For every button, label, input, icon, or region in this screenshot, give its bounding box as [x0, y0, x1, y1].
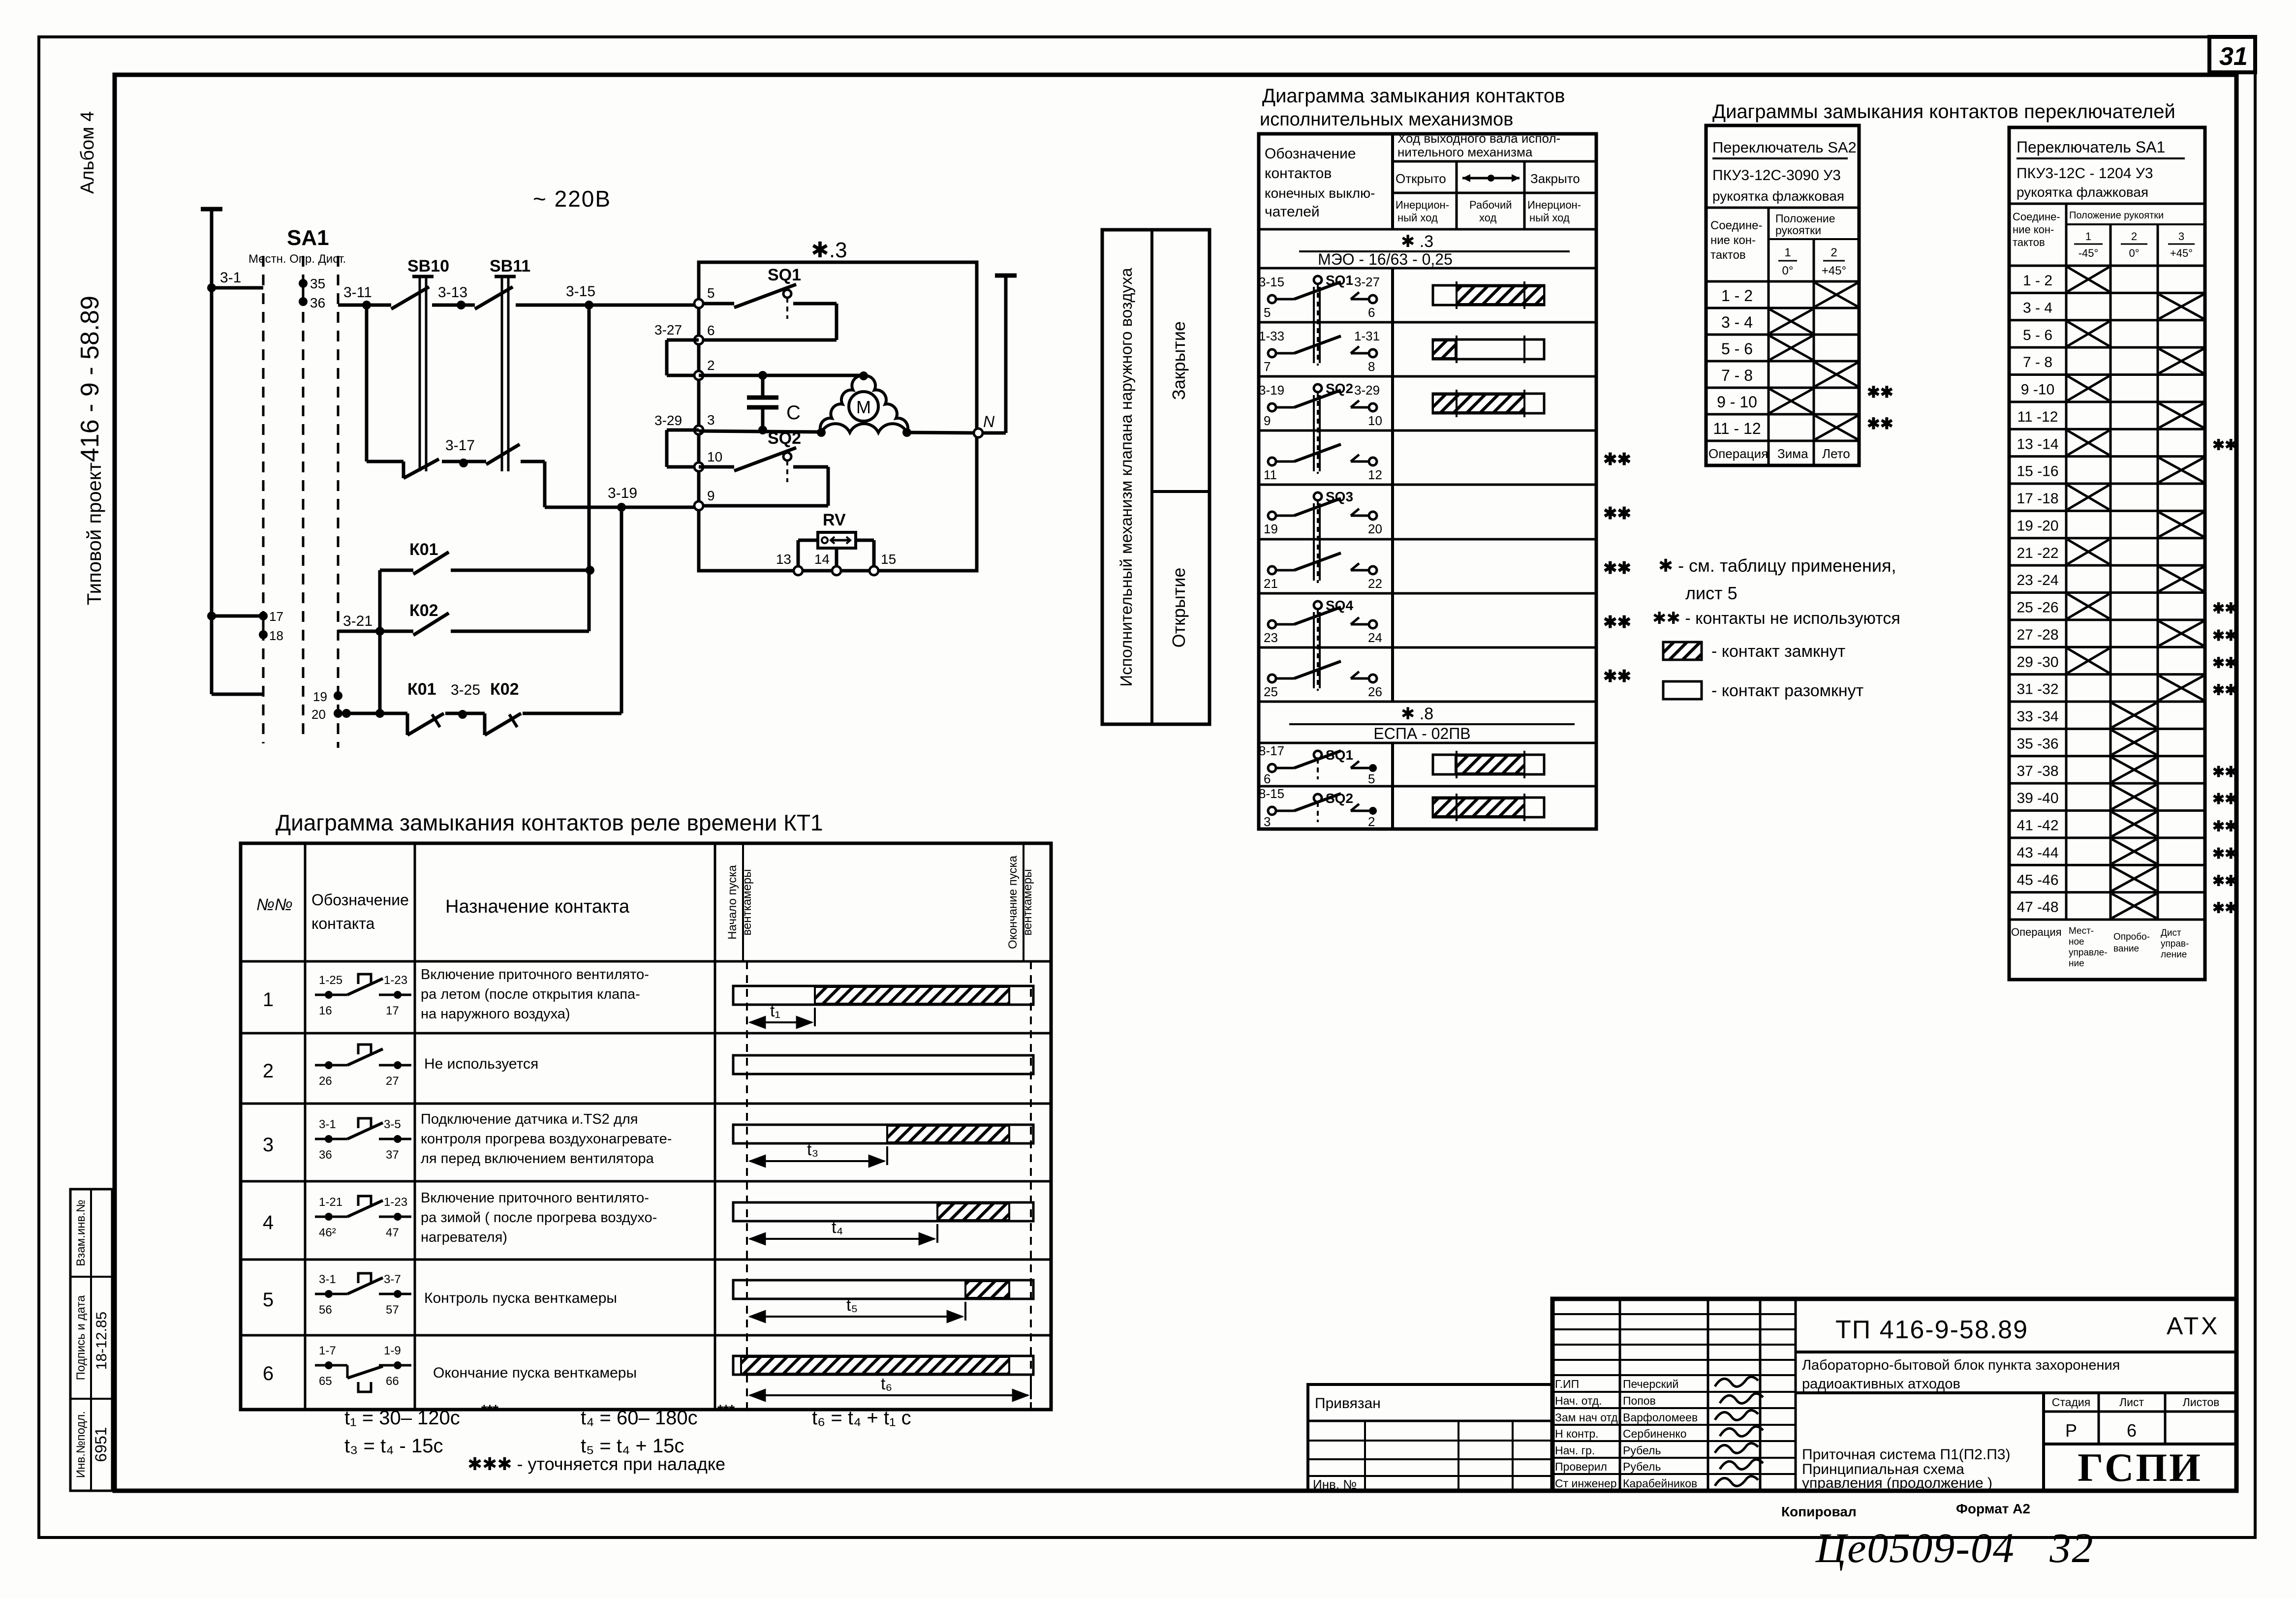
- svg-text:К01: К01: [409, 540, 438, 559]
- svg-text:25: 25: [1264, 684, 1278, 699]
- node 3-11: [343, 284, 372, 309]
- break contact K02 bottom: [485, 680, 521, 735]
- svg-text:ПКУ3-12С - 1204 У3: ПКУ3-12С - 1204 У3: [2017, 165, 2153, 182]
- KT1 table frame: [241, 843, 1051, 1410]
- svg-text:Операция: Операция: [2011, 926, 2062, 938]
- right neutral bus N: [981, 276, 1017, 433]
- svg-text:39 -40: 39 -40: [2017, 790, 2058, 806]
- pin 10: [694, 449, 722, 471]
- contact row SQ3 19-20 unused: [1264, 489, 1631, 583]
- svg-text:✱✱: ✱✱: [1603, 667, 1631, 686]
- svg-text:Открыто: Открыто: [1396, 171, 1446, 186]
- svg-text:5 - 6: 5 - 6: [2023, 327, 2052, 343]
- svg-text:SQ1: SQ1: [768, 266, 801, 284]
- svg-text:✱✱: ✱✱: [2212, 900, 2237, 917]
- svg-text:6: 6: [1264, 771, 1271, 786]
- pin 3: [694, 412, 715, 434]
- svg-text:Инерцион-: Инерцион-: [1527, 199, 1581, 211]
- svg-text:М: М: [856, 397, 871, 417]
- svg-text:3-15: 3-15: [566, 283, 595, 300]
- motor M delta winding: [817, 371, 911, 437]
- svg-text:✱✱: ✱✱: [1867, 383, 1893, 401]
- svg-text:t₃ = t₄ - 15с: t₃ = t₄ - 15с: [344, 1435, 443, 1457]
- svg-text:✱ - см. таблицу применения,: ✱ - см. таблицу применения,: [1658, 555, 1896, 576]
- svg-text:Н контр.: Н контр.: [1555, 1427, 1599, 1440]
- svg-text:416 - 9 - 58.89: 416 - 9 - 58.89: [76, 296, 104, 462]
- svg-text:3: 3: [707, 412, 715, 428]
- svg-text:1-9: 1-9: [384, 1344, 401, 1357]
- svg-text:Закрыто: Закрыто: [1530, 171, 1580, 186]
- svg-text:+45°: +45°: [2170, 247, 2193, 259]
- svg-text:Положение рукоятки: Положение рукоятки: [2069, 210, 2164, 221]
- node 3-21: [343, 613, 384, 636]
- svg-text:✱✱: ✱✱: [2212, 601, 2237, 617]
- svg-text:16: 16: [319, 1004, 332, 1017]
- svg-text:3 - 4: 3 - 4: [1721, 313, 1753, 331]
- wire main row to actuator box: [338, 304, 696, 307]
- pin 5: [694, 285, 715, 308]
- svg-text:Зима: Зима: [1777, 446, 1808, 461]
- title Диаграмма замыкания контактов реле времени КТ1: [276, 810, 823, 835]
- svg-text:36: 36: [319, 1148, 332, 1162]
- svg-text:рукоятка флажковая: рукоятка флажковая: [2017, 184, 2148, 200]
- svg-text:✱✱: ✱✱: [1603, 613, 1631, 632]
- svg-text:21: 21: [1264, 576, 1278, 591]
- svg-text:Рабочий: Рабочий: [1469, 199, 1512, 211]
- actuator mechanism label table: [1102, 230, 1210, 724]
- svg-text:✱✱: ✱✱: [2212, 819, 2237, 835]
- svg-text:Подключение датчика и.TS2 для: Подключение датчика и.TS2 для: [421, 1111, 638, 1127]
- svg-text:2: 2: [263, 1060, 274, 1082]
- legend open contact swatch: [1663, 681, 1863, 700]
- actuator box *.3: [699, 238, 977, 571]
- svg-text:17 -18: 17 -18: [2017, 491, 2058, 507]
- svg-text:✱✱: ✱✱: [1603, 450, 1631, 469]
- svg-text:33 -34: 33 -34: [2017, 708, 2058, 725]
- label Копировал: [1781, 1504, 1857, 1519]
- svg-text:Инерцион-: Инерцион-: [1396, 199, 1449, 211]
- svg-text:5: 5: [1368, 771, 1375, 786]
- svg-text:контакта: контакта: [311, 915, 375, 932]
- svg-text:23: 23: [1264, 630, 1278, 645]
- limit switch SQ1: [699, 266, 837, 340]
- KT1 row 5: [263, 1273, 1033, 1321]
- svg-text:Включение приточного вентиля: Включение приточного вентилято-: [421, 1190, 649, 1206]
- svg-text:исполнительных механизмов: исполнительных механизмов: [1260, 109, 1513, 130]
- svg-text:Лист: Лист: [2119, 1396, 2144, 1409]
- contact row SQ2 3-19/9 3-29/10 with bar: [1259, 381, 1544, 474]
- svg-text:t₅: t₅: [846, 1296, 858, 1315]
- svg-text:Лабораторно-бытовой блок пу: Лабораторно-бытовой блок пункта захороне…: [1802, 1357, 2120, 1373]
- contact row SQ1 3-15/5 3-27/6 with bar: [1259, 273, 1544, 366]
- svg-text:3-1: 3-1: [319, 1273, 336, 1286]
- svg-text:37 -38: 37 -38: [2017, 763, 2058, 779]
- svg-text:26: 26: [319, 1075, 332, 1088]
- svg-text:5: 5: [1264, 305, 1271, 320]
- wire left relay column: [378, 570, 382, 713]
- svg-text:+45°: +45°: [1822, 264, 1846, 277]
- svg-text:Опробо-: Опробо-: [2113, 932, 2150, 942]
- svg-text:3: 3: [263, 1134, 274, 1156]
- svg-text:13: 13: [776, 552, 791, 567]
- svg-text:8-15: 8-15: [1259, 786, 1284, 801]
- pin 13: [776, 552, 803, 575]
- svg-text:47 -48: 47 -48: [2017, 899, 2058, 916]
- node 3-19: [608, 485, 637, 512]
- svg-text:Лето: Лето: [1822, 446, 1850, 461]
- contact row 11-12 unused: [1264, 444, 1631, 482]
- svg-text:11 -12: 11 -12: [2017, 409, 2058, 425]
- svg-text:Взам.инв.№: Взам.инв.№: [74, 1199, 88, 1266]
- svg-text:ние кон-: ние кон-: [2013, 223, 2054, 236]
- svg-text:12: 12: [1368, 467, 1382, 482]
- svg-text:t₄: t₄: [832, 1218, 843, 1237]
- svg-text:✱✱: ✱✱: [2212, 655, 2237, 671]
- KT1 time formulas: [344, 1402, 911, 1457]
- node 3-15: [566, 283, 595, 309]
- contact row 1-33/7 1-31/8 with bar: [1259, 329, 1544, 374]
- svg-text:✱✱: ✱✱: [1603, 559, 1631, 578]
- svg-text:11 - 12: 11 - 12: [1713, 420, 1761, 437]
- svg-text:9: 9: [707, 488, 715, 503]
- svg-text:Инв. №: Инв. №: [1313, 1477, 1357, 1492]
- svg-text:Копировал: Копировал: [1781, 1504, 1857, 1519]
- svg-text:3-1: 3-1: [220, 270, 241, 286]
- title block sheet name: [1802, 1446, 2010, 1491]
- pushbutton SB10: [391, 257, 449, 478]
- svg-text:№№: №№: [256, 895, 293, 914]
- legend asterisk notes: [1652, 555, 1900, 628]
- svg-text:Диаграмма замыкания контакто: Диаграмма замыкания контактов реле време…: [276, 810, 823, 835]
- svg-text:35 -36: 35 -36: [2017, 736, 2058, 752]
- contact 19-20 on SA1: [311, 689, 342, 722]
- svg-text:✱✱: ✱✱: [2212, 846, 2237, 862]
- pin 9: [694, 488, 715, 510]
- title Диаграмма замыкания контактов исполнительных механизмов: [1260, 85, 1565, 130]
- pin 14: [814, 552, 841, 575]
- svg-text:37: 37: [386, 1148, 399, 1162]
- title block frame: [1552, 1299, 2236, 1491]
- svg-text:Не используется: Не используется: [424, 1056, 538, 1072]
- svg-text:ние кон-: ние кон-: [1710, 234, 1756, 247]
- svg-text:6: 6: [2127, 1420, 2137, 1441]
- svg-text:Нач. отд.: Нач. отд.: [1555, 1394, 1602, 1407]
- svg-text:управле-: управле-: [2069, 948, 2108, 958]
- svg-text:15: 15: [881, 552, 896, 567]
- svg-text:✱✱: ✱✱: [2212, 764, 2237, 780]
- svg-text:Р: Р: [2065, 1420, 2077, 1441]
- svg-text:Типовой проект: Типовой проект: [84, 462, 105, 605]
- svg-text:конечных выклю-: конечных выклю-: [1265, 185, 1375, 201]
- pin 6: [694, 323, 715, 344]
- svg-text:контактов: контактов: [1265, 165, 1332, 182]
- title block roles and names: [1555, 1378, 1698, 1490]
- svg-text:тактов: тактов: [1710, 248, 1746, 262]
- svg-text:t₆ = t₄ + t₁ с: t₆ = t₄ + t₁ с: [812, 1407, 911, 1429]
- svg-text:3-5: 3-5: [384, 1118, 401, 1131]
- svg-text:N: N: [983, 413, 995, 430]
- wire 3-27 loop: [654, 322, 699, 375]
- margin text Типовой проект 416-9-58.89: [76, 296, 105, 605]
- svg-text:- контакт разомкнут: - контакт разомкнут: [1711, 681, 1863, 700]
- svg-text:рукоятка флажковая: рукоятка флажковая: [1712, 188, 1844, 204]
- svg-text:14: 14: [814, 552, 830, 567]
- svg-text:Дист: Дист: [2161, 928, 2181, 938]
- svg-text:Контроль пуска венткамеры: Контроль пуска венткамеры: [424, 1290, 617, 1306]
- svg-text:45 -46: 45 -46: [2017, 872, 2058, 888]
- contact 17-18 on SA1: [207, 609, 283, 643]
- svg-text:17: 17: [386, 1004, 399, 1017]
- svg-text:17: 17: [269, 609, 283, 624]
- svg-text:1: 1: [1784, 246, 1791, 259]
- svg-text:Варфоломеев: Варфоломеев: [1623, 1411, 1698, 1424]
- svg-text:SB11: SB11: [490, 257, 530, 276]
- svg-text:t₆: t₆: [881, 1375, 892, 1393]
- svg-text:***: ***: [481, 1402, 498, 1418]
- svg-text:3-15: 3-15: [1259, 275, 1284, 289]
- svg-text:9 - 10: 9 - 10: [1717, 393, 1757, 411]
- svg-text:ГСПИ: ГСПИ: [2078, 1445, 2203, 1490]
- svg-text:Сербиненко: Сербиненко: [1623, 1427, 1687, 1440]
- svg-text:Приточная система П1(П2.П3): Приточная система П1(П2.П3): [1802, 1446, 2010, 1463]
- svg-text:15 -16: 15 -16: [2017, 463, 2058, 480]
- legend closed contact swatch: [1663, 642, 1845, 661]
- svg-text:К02: К02: [490, 680, 519, 699]
- svg-text:8-17: 8-17: [1259, 743, 1284, 758]
- SA2 unused marks: [1867, 383, 1893, 432]
- svg-text:1-23: 1-23: [384, 1196, 407, 1209]
- actuator contact table frame: [1259, 134, 1596, 829]
- wire from 3-19 to bottom row: [620, 507, 623, 713]
- svg-text:лист 5: лист 5: [1685, 583, 1738, 603]
- svg-text:✱✱: ✱✱: [2212, 791, 2237, 807]
- svg-text:25 -26: 25 -26: [2017, 600, 2058, 616]
- actuator table band ЕСПА-02ПВ: [1259, 702, 1596, 743]
- svg-text:2: 2: [1368, 814, 1375, 829]
- contact 35-36 on SA1: [299, 276, 325, 310]
- svg-text:66: 66: [386, 1375, 399, 1388]
- svg-text:Обозначение: Обозначение: [1265, 146, 1356, 162]
- wire bottom row: [338, 709, 621, 718]
- svg-text:ра зимой ( после прогрева во: ра зимой ( после прогрева воздухо-: [421, 1210, 657, 1226]
- svg-text:3-19: 3-19: [608, 485, 637, 501]
- svg-text:✱ .8: ✱ .8: [1401, 705, 1433, 723]
- svg-text:9 -10: 9 -10: [2021, 382, 2054, 398]
- svg-text:5: 5: [707, 285, 715, 301]
- svg-text:1-31: 1-31: [1354, 329, 1380, 343]
- svg-text:65: 65: [319, 1375, 332, 1388]
- svg-text:нагревателя): нагревателя): [421, 1229, 507, 1245]
- svg-text:3: 3: [2178, 230, 2184, 243]
- svg-text:✱ .3: ✱ .3: [1401, 232, 1433, 251]
- svg-text:Диаграммы замыкания контакт: Диаграммы замыкания контактов переключат…: [1712, 101, 2175, 123]
- title Диаграммы замыкания контактов переключателей: [1712, 101, 2175, 123]
- margin handwritten date 18-12-85: [93, 1312, 110, 1370]
- svg-text:✱✱ - контакты не используютс: ✱✱ - контакты не используются: [1652, 609, 1900, 628]
- svg-text:ление: ление: [2161, 950, 2187, 960]
- svg-text:10: 10: [707, 449, 722, 464]
- svg-text:t₁: t₁: [770, 1002, 780, 1020]
- actuator table row lines: [1259, 322, 1596, 647]
- svg-text:тактов: тактов: [2013, 236, 2045, 248]
- svg-text:вание: вание: [2113, 944, 2139, 954]
- svg-text:***: ***: [717, 1402, 735, 1418]
- svg-text:27: 27: [386, 1075, 399, 1088]
- svg-text:1-23: 1-23: [384, 974, 407, 987]
- svg-text:К01: К01: [407, 680, 436, 699]
- node N: [974, 413, 995, 437]
- handwritten archive number Це0509-04 32: [1815, 1524, 2094, 1571]
- svg-text:23 -24: 23 -24: [2017, 572, 2058, 588]
- svg-text:22: 22: [1368, 576, 1382, 591]
- svg-text:5: 5: [263, 1289, 274, 1311]
- svg-text:Начало пуска: Начало пуска: [726, 865, 739, 940]
- svg-text:Окончание пуска: Окончание пуска: [1006, 856, 1020, 949]
- wire lower branch via 3-17: [367, 305, 696, 507]
- KT1 row 2: [263, 1045, 1033, 1088]
- svg-text:рукоятки: рукоятки: [1775, 224, 1821, 237]
- actuator table row line: [1259, 785, 1596, 788]
- svg-text:1-7: 1-7: [319, 1344, 336, 1357]
- svg-text:ТП 416-9-58.89: ТП 416-9-58.89: [1835, 1316, 2028, 1344]
- margin handwritten number 6951: [92, 1427, 110, 1462]
- pushbutton SB11: [475, 257, 530, 471]
- svg-text:Нач. гр.: Нач. гр.: [1555, 1444, 1595, 1457]
- svg-text:36: 36: [310, 295, 325, 310]
- svg-text:3-19: 3-19: [1259, 383, 1284, 398]
- svg-text:6: 6: [1368, 305, 1375, 320]
- svg-text:7 - 8: 7 - 8: [1721, 367, 1753, 384]
- svg-text:7 - 8: 7 - 8: [2023, 354, 2052, 370]
- pin 15: [869, 552, 896, 575]
- svg-text:Назначение контакта: Назначение контакта: [445, 896, 630, 917]
- svg-text:Це0509-04 32: Це0509-04 32: [1815, 1524, 2094, 1571]
- svg-text:✱✱: ✱✱: [2212, 873, 2237, 889]
- svg-text:Переключатель SA2: Переключатель SA2: [1712, 139, 1857, 156]
- svg-text:Г.ИП: Г.ИП: [1555, 1378, 1579, 1390]
- wire node2 row: [699, 374, 864, 377]
- svg-text:46²: 46²: [319, 1226, 336, 1239]
- resistor RV: [798, 511, 874, 568]
- svg-text:1 - 2: 1 - 2: [2023, 273, 2052, 289]
- svg-text:Печерский: Печерский: [1623, 1378, 1678, 1390]
- svg-text:~ 220В: ~ 220В: [533, 186, 611, 212]
- switch SA1 label: [248, 226, 346, 266]
- svg-text:3-27: 3-27: [654, 322, 682, 338]
- svg-text:41 -42: 41 -42: [2017, 818, 2058, 834]
- svg-text:1 - 2: 1 - 2: [1721, 287, 1753, 305]
- svg-text:47: 47: [386, 1226, 399, 1239]
- svg-text:19 -20: 19 -20: [2017, 518, 2058, 534]
- svg-text:1-21: 1-21: [319, 1196, 342, 1209]
- svg-text:5 - 6: 5 - 6: [1721, 340, 1753, 358]
- svg-text:Рубель: Рубель: [1623, 1444, 1661, 1457]
- svg-text:31: 31: [2219, 42, 2248, 71]
- svg-text:1: 1: [263, 989, 274, 1011]
- svg-text:3-27: 3-27: [1354, 275, 1380, 289]
- svg-text:13 -14: 13 -14: [2017, 436, 2058, 452]
- svg-text:3: 3: [1264, 814, 1271, 829]
- sheet number box 31: [2209, 37, 2255, 72]
- svg-text:18: 18: [269, 628, 283, 643]
- svg-text:27 -28: 27 -28: [2017, 627, 2058, 643]
- node 3-13: [438, 284, 467, 309]
- svg-text:Рубель: Рубель: [1623, 1460, 1661, 1473]
- svg-text:Операция: Операция: [1708, 446, 1768, 461]
- svg-text:6951: 6951: [92, 1427, 110, 1462]
- svg-text:1-33: 1-33: [1259, 329, 1284, 343]
- svg-text:Зам нач отд: Зам нач отд: [1555, 1411, 1618, 1424]
- svg-text:управ-: управ-: [2161, 939, 2189, 949]
- svg-text:35: 35: [310, 276, 325, 291]
- svg-text:2: 2: [2131, 230, 2137, 243]
- power label ~220В: [533, 186, 611, 212]
- svg-text:✱✱: ✱✱: [1867, 415, 1893, 432]
- svg-text:Привязан: Привязан: [1315, 1395, 1381, 1412]
- contact row 21-22 unused: [1264, 553, 1631, 591]
- svg-text:29 -30: 29 -30: [2017, 654, 2058, 670]
- node 3-1: [207, 270, 263, 292]
- svg-text:С: С: [786, 402, 801, 424]
- svg-text:Альбом 4: Альбом 4: [77, 111, 98, 194]
- svg-text:ПКУ3-12С-3090 У3: ПКУ3-12С-3090 У3: [1712, 167, 1841, 184]
- svg-text:56: 56: [319, 1303, 332, 1317]
- capacitor C: [747, 371, 801, 434]
- svg-text:31 -32: 31 -32: [2017, 681, 2058, 698]
- svg-text:t₃: t₃: [807, 1140, 818, 1159]
- svg-text:✱✱: ✱✱: [2212, 628, 2237, 644]
- svg-text:Включение приточного вентилято: Включение приточного вентилято-: [421, 967, 649, 983]
- svg-text:Карабейников: Карабейников: [1623, 1477, 1697, 1490]
- svg-text:Переключатель SA1: Переключатель SA1: [2017, 138, 2165, 156]
- actuator table header: [1259, 131, 1596, 229]
- svg-text:Открытие: Открытие: [1169, 568, 1189, 648]
- switch SA2 contact table: [1706, 125, 1859, 465]
- svg-text:-45°: -45°: [2079, 247, 2099, 259]
- KT1 dashed reference lines: [747, 961, 1031, 1410]
- svg-text:ЕСПА - 02ПВ: ЕСПА - 02ПВ: [1373, 725, 1470, 742]
- svg-text:7: 7: [1264, 359, 1271, 374]
- svg-text:✱✱: ✱✱: [2212, 437, 2237, 453]
- svg-text:Ход выходного вала испол-: Ход выходного вала испол-: [1397, 131, 1560, 146]
- relay contact K02: [338, 601, 589, 635]
- wire 3-29 loop: [654, 413, 699, 467]
- svg-text:18-12.85: 18-12.85: [93, 1312, 110, 1370]
- svg-text:0°: 0°: [1782, 264, 1794, 277]
- svg-text:24: 24: [1368, 630, 1382, 645]
- contact row 25-26 unused: [1264, 661, 1631, 699]
- svg-text:3-17: 3-17: [445, 437, 475, 454]
- svg-text:21 -22: 21 -22: [2017, 545, 2058, 561]
- svg-text:АТХ: АТХ: [2167, 1312, 2220, 1340]
- title block object description: [1796, 1357, 2236, 1393]
- title block stage cells: [2044, 1393, 2236, 1491]
- limit switch SQ2: [699, 429, 828, 506]
- svg-text:Соедине-: Соедине-: [1710, 219, 1763, 232]
- svg-text:Попов: Попов: [1623, 1394, 1656, 1407]
- relay contact K01: [380, 540, 594, 575]
- margin stamp table Взам.инв.№ / Подпись и дата / Инв.№подл.: [70, 1189, 112, 1491]
- switch SA1 contact table: [2009, 127, 2237, 980]
- break contact K01 bottom: [407, 680, 444, 735]
- svg-text:26: 26: [1368, 684, 1382, 699]
- svg-text:RV: RV: [823, 511, 846, 529]
- svg-text:Проверил: Проверил: [1555, 1460, 1607, 1473]
- svg-text:Исполнительный механизм клапан: Исполнительный механизм клапана наружног…: [1117, 268, 1135, 687]
- svg-text:3-13: 3-13: [438, 284, 467, 301]
- svg-text:Закрытие: Закрытие: [1169, 321, 1189, 400]
- svg-text:Положение: Положение: [1775, 212, 1835, 225]
